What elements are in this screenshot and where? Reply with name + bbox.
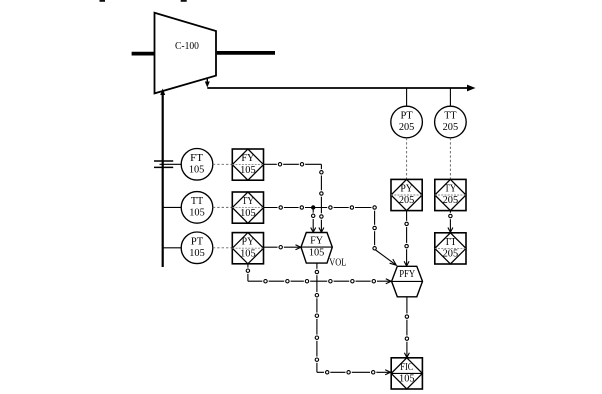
svg-text:PY: PY [400, 184, 413, 195]
svg-text:105: 105 [309, 247, 325, 258]
shared display PY-205 [391, 179, 422, 210]
wire: inlet pipe vertical [162, 91, 164, 268]
svg-text:FY: FY [310, 236, 323, 247]
wire: vertical drop from compressor to discharge header [206, 79, 208, 84]
svg-text:205: 205 [399, 122, 415, 133]
shared display FY-105 [232, 149, 263, 180]
signal dashed TT-105 to TY-105 [213, 206, 233, 208]
instrument circle PT-205 [391, 106, 423, 138]
svg-text:TT: TT [444, 237, 457, 248]
software link: FY hexagon down then right to FIC-105 [314, 263, 391, 375]
wire: tap from orifice to FT-105 [160, 163, 182, 165]
svg-text:TY: TY [242, 196, 254, 207]
svg-text:FY: FY [241, 153, 254, 164]
shared display PY-105 [232, 233, 263, 264]
svg-text:TT: TT [191, 196, 204, 207]
shared display TT-205 [435, 233, 466, 264]
signal dashed FT-105 to FY-105 [213, 163, 233, 165]
svg-text:105: 105 [240, 248, 256, 259]
svg-text:205: 205 [443, 122, 459, 133]
software link: junction down to FY hexagon [310, 208, 316, 233]
svg-text:205: 205 [443, 195, 459, 206]
signal dashed TT-205 to TY-205 [449, 138, 451, 180]
svg-text:105: 105 [240, 165, 256, 176]
svg-text:PT: PT [400, 111, 413, 122]
arrow right at header end [467, 85, 476, 92]
wire: tap to PT-205 [406, 88, 408, 106]
shared display FIC-105 [391, 358, 422, 389]
wire: pipe to TT-105 [163, 206, 182, 208]
instrument circle TT-105 [181, 192, 213, 224]
arrow down onto header [205, 82, 210, 88]
svg-text:105: 105 [189, 248, 205, 259]
svg-text:FT: FT [190, 153, 203, 164]
svg-text:205: 205 [399, 195, 415, 206]
instrument circle PT-105 [181, 232, 213, 264]
software link: PY-105 bottom to PFY hexagon [245, 264, 391, 285]
svg-text:FIC: FIC [400, 362, 413, 373]
svg-text:TY: TY [444, 184, 456, 195]
software link PY row: PY-105 square to FY hexagon left vertex [264, 244, 301, 250]
svg-text:C-100: C-100 [175, 41, 199, 52]
function block FY-105 hexagon [301, 233, 332, 264]
svg-text:105: 105 [189, 208, 205, 219]
software link FY row: FY-105 square to corner then down to FY hexagon [264, 161, 325, 232]
compressor C-100 [155, 13, 217, 94]
svg-text:PT: PT [191, 236, 204, 247]
cut-off text remnant left [100, 0, 106, 2]
software link: PY-205 down to PFY hexagon [403, 211, 409, 266]
wire: pipe to PT-105 [163, 247, 182, 249]
svg-text:105: 105 [189, 164, 205, 175]
wire: discharge header horizontal [207, 87, 470, 89]
diagonal into PFY [376, 250, 396, 265]
cut-off text remnant right [181, 0, 187, 2]
wire: tap to TT-205 [449, 88, 451, 106]
signal dashed PT-205 to PY-205 [406, 138, 408, 180]
wire: discharge line (thick) [217, 51, 275, 55]
function block PFY hexagon [392, 266, 423, 297]
arrow into compressor bottom [160, 89, 165, 96]
shared display TY-105 [232, 192, 263, 223]
signal dashed PT-105 to PY-105 [213, 247, 233, 249]
svg-text:PFY: PFY [399, 269, 415, 280]
instrument circle FT-105 [181, 149, 213, 181]
flow element orifice plates [154, 161, 173, 167]
svg-text:105: 105 [240, 208, 256, 219]
svg-text:105: 105 [399, 373, 415, 384]
software link: PFY down to FIC-105 [404, 297, 410, 358]
link TY-205 to TT-205 square [447, 211, 453, 233]
software link TY row: TY-105 square right to corner then down to PFY [264, 204, 397, 265]
svg-text:VOL: VOL [329, 258, 346, 269]
svg-text:TT: TT [444, 111, 457, 122]
instrument circle TT-205 [435, 106, 467, 138]
svg-text:205: 205 [443, 249, 459, 260]
wire: suction line (thick) [132, 52, 155, 56]
svg-text:PY: PY [242, 237, 255, 248]
junction dot [311, 205, 315, 209]
shared display TY-205 [435, 179, 466, 210]
